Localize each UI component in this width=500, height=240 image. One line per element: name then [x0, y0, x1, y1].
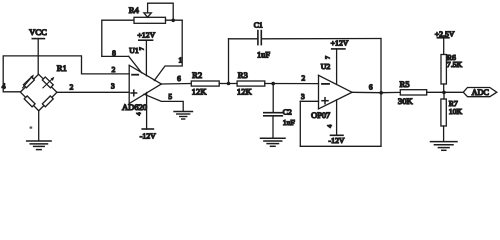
svg-text:3: 3 — [301, 92, 305, 101]
-12V supply U1 — [137, 93, 157, 141]
bridge R1 diamond — [21, 74, 57, 111]
+12V supply U2 — [326, 39, 349, 85]
svg-text:U2: U2 — [321, 62, 331, 71]
minus sign U1 — [132, 74, 138, 76]
wire R3 to U2 — [265, 83, 319, 85]
wire node4 route to pin2 — [3, 56, 129, 92]
ground (R7) — [431, 142, 458, 151]
svg-text:1: 1 — [178, 56, 182, 65]
svg-text:VCC: VCC — [29, 27, 47, 37]
svg-text:R5: R5 — [399, 79, 409, 89]
svg-text:7: 7 — [326, 56, 332, 59]
resistor R6 — [441, 55, 446, 85]
pin 5 wire and ground — [144, 92, 183, 111]
R4 right wire — [166, 19, 183, 21]
svg-text:-12V: -12V — [328, 136, 344, 145]
gauge resistor top-right — [42, 77, 53, 88]
op-amp U1 triangle — [129, 65, 161, 103]
svg-text:2: 2 — [112, 65, 116, 74]
wire R2 to R3 — [219, 83, 237, 85]
R7 top wire — [443, 92, 445, 99]
scan speck — [30, 127, 33, 129]
svg-text:7.5K: 7.5K — [447, 60, 463, 69]
U2 output wire pin 6 — [352, 91, 381, 93]
svg-text:4: 4 — [137, 113, 143, 116]
junction dot R4 — [171, 19, 175, 23]
C2 ground stem — [272, 116, 274, 138]
svg-text:OP07: OP07 — [311, 111, 330, 120]
plus sign U2 — [322, 98, 328, 104]
svg-text:2: 2 — [302, 74, 306, 83]
resistor R2 — [191, 81, 219, 86]
+2.5V supply — [435, 29, 455, 54]
gauge arrow top-right — [43, 77, 54, 88]
U1 output wire pin 6 — [161, 83, 191, 86]
svg-text:12K: 12K — [192, 87, 208, 97]
svg-text:5: 5 — [168, 92, 172, 101]
resistor R7 — [441, 99, 446, 126]
bottom feedback rail — [300, 145, 381, 147]
C2 top leg — [272, 84, 274, 113]
potentiometer R4 — [134, 17, 166, 23]
op-amp U2 triangle — [319, 75, 353, 109]
C1 top rail to feedback — [261, 38, 381, 40]
plus sign U1 — [131, 90, 137, 96]
svg-text:30K: 30K — [398, 96, 414, 106]
svg-text:4: 4 — [2, 82, 6, 91]
gauge arrow top-left — [23, 75, 34, 88]
-12V supply U2 — [327, 100, 345, 145]
minus sign U2 — [322, 83, 329, 85]
svg-text:R2: R2 — [192, 70, 202, 80]
svg-text:+12V: +12V — [331, 39, 349, 48]
svg-text:ADC: ADC — [472, 88, 490, 97]
R4 wiper arrow — [144, 3, 173, 20]
svg-text:-12V: -12V — [140, 131, 156, 140]
svg-text:+12V: +12V — [137, 30, 155, 39]
capacitor C1 — [229, 20, 271, 59]
gauge resistor bottom-left — [24, 96, 35, 107]
ground (pin5) — [174, 112, 193, 120]
pin 1 wire from R4 loop — [154, 20, 182, 80]
svg-text:8: 8 — [112, 49, 116, 58]
svg-text:4: 4 — [327, 125, 333, 128]
svg-text:1uF: 1uF — [283, 118, 296, 127]
wire to R5 — [381, 91, 400, 93]
svg-text:U1: U1 — [129, 46, 139, 55]
resistor R3 — [237, 81, 265, 86]
svg-text:10K: 10K — [449, 107, 463, 116]
junction node A — [227, 82, 231, 86]
gauge resistor top-left — [23, 77, 34, 88]
svg-text:6: 6 — [369, 83, 373, 92]
bridge ground stem — [38, 111, 40, 141]
ground (bridge) — [27, 141, 51, 150]
+12V supply U1 — [137, 30, 155, 75]
svg-text:7: 7 — [139, 47, 145, 50]
svg-text:R3: R3 — [238, 70, 248, 80]
svg-text:6: 6 — [177, 74, 181, 83]
power VCC symbol — [29, 27, 47, 74]
svg-text:R1: R1 — [57, 63, 67, 73]
wire R5 to ADC node — [427, 91, 464, 93]
ground (C2) — [261, 138, 286, 146]
svg-text:2: 2 — [70, 82, 74, 91]
svg-text:C2: C2 — [283, 107, 292, 116]
svg-text:R4: R4 — [129, 5, 140, 15]
feedback vertical wire — [380, 39, 382, 147]
R7 bottom stem — [443, 126, 445, 141]
svg-text:1uF: 1uF — [257, 51, 270, 60]
ADC output flag — [463, 88, 497, 98]
pin3 drop wire — [299, 101, 301, 146]
capacitor C2 — [264, 107, 296, 127]
R6 bottom wire — [443, 84, 445, 92]
C1 left leg — [228, 39, 230, 84]
U2 pin3 wire — [300, 100, 318, 102]
R4 left leg wire — [102, 20, 134, 56]
svg-text:12K: 12K — [237, 87, 253, 97]
junction ADC node — [442, 91, 446, 95]
svg-text:AD620: AD620 — [122, 102, 147, 112]
pin 8 wire — [102, 55, 129, 57]
svg-text:C1: C1 — [254, 20, 263, 29]
svg-text:3: 3 — [111, 81, 115, 90]
wire node2 to pin3 — [57, 91, 129, 93]
gauge resistor bottom-right — [42, 96, 53, 107]
junction node B — [271, 82, 275, 86]
resistor R5 — [400, 90, 426, 95]
junction output node — [379, 91, 383, 95]
